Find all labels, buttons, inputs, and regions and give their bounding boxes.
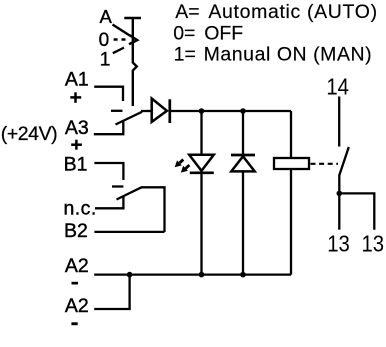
svg-text:A3: A3 (65, 117, 89, 139)
diode D1 cathode bar (168, 99, 171, 123)
suppressor diode D2 triangle (pointing up) (231, 156, 254, 171)
svg-text:B1: B1 (64, 154, 88, 176)
fixed contact tick of B1 contact (112, 185, 123, 187)
wire top rail corner down to relay coil K1 (290, 111, 292, 158)
relay coil K1 (274, 158, 309, 169)
svg-text:1: 1 (100, 48, 111, 70)
svg-text:A2: A2 (65, 255, 89, 277)
svg-text:13: 13 (362, 230, 385, 256)
junction node A2 tie point (127, 272, 133, 278)
svg-text:A2: A2 (65, 295, 89, 317)
wire from pin 14 to contact (338, 97, 340, 147)
wire from B1 down to fixed contact (94, 163, 123, 180)
wire relay coil K1 to bottom rail (290, 169, 292, 275)
selector lever position 1 (tick) (113, 48, 124, 54)
svg-text:(+24V): (+24V) (1, 123, 57, 145)
wire branch to second pin 13 (339, 193, 374, 229)
plus sign under A1 (70, 92, 81, 103)
wire LED cathode to bottom rail (200, 173, 202, 275)
svg-text:1=: 1= (174, 44, 196, 66)
minus sign under lower A2 (71, 322, 77, 325)
LED emission arrow 2 (181, 165, 190, 173)
junction node at 13 branch (337, 191, 343, 197)
fixed contact tick of A1/A3 selector contact (111, 110, 123, 112)
wire from n.c. up to blade pivot (95, 197, 123, 209)
svg-text:B2: B2 (64, 220, 88, 242)
moving blade of A1/A3 selector contact (116, 112, 143, 125)
wire contact to pin 13 (338, 175, 340, 230)
svg-text:A: A (100, 6, 113, 27)
minus sign under upper A2 (72, 282, 79, 285)
LED indicator triangle (189, 155, 214, 171)
legend line 1 = Manual ON (MAN) (174, 44, 373, 66)
plus sign under A3 (71, 140, 82, 150)
svg-text:14: 14 (326, 74, 349, 100)
svg-text:A=: A= (175, 1, 199, 23)
svg-text:13: 13 (327, 230, 350, 256)
wire D2 anode to bottom rail (242, 171, 244, 274)
legend line 0 = OFF (173, 22, 243, 44)
junction node bottom rail / LED branch (199, 272, 205, 278)
svg-text:Automatic (AUTO): Automatic (AUTO) (208, 1, 377, 23)
svg-text:0=: 0= (173, 22, 195, 44)
junction node bottom rail / diode branch (240, 272, 246, 278)
svg-text:Manual ON (MAN): Manual ON (MAN) (204, 44, 373, 66)
wire top rail to LED anode (200, 111, 202, 155)
svg-text:A1: A1 (65, 69, 89, 91)
svg-text:n.c.: n.c. (64, 197, 97, 219)
wire lower A2 up to junction (94, 275, 129, 309)
junction node top rail / LED branch (199, 108, 205, 114)
wire from blade end around to B2 (141, 187, 165, 232)
selector switch S1 actuator T-bar (124, 17, 141, 20)
top supply rail wire (171, 110, 291, 112)
LED cathode bar (190, 171, 214, 174)
relay output contact blade (NO) (339, 147, 349, 175)
wire B2 (94, 231, 164, 233)
moving blade of B1 contact (117, 187, 142, 199)
selector lever position A (solid line with arrowhead) (113, 25, 138, 45)
svg-text:OFF: OFF (204, 22, 243, 44)
suppressor diode D2 cathode bar (231, 154, 255, 157)
bottom rail wire from A2 to coil (94, 273, 291, 275)
wire from A1 to fixed contact (94, 87, 123, 101)
selector lever position 0 (dashed) (114, 38, 127, 40)
wire from A3 to blade pivot (94, 122, 124, 135)
selector switch S1 actuator shaft with detent kink (133, 18, 137, 106)
LED emission arrow 1 (175, 160, 184, 168)
junction node top rail / diode branch (240, 108, 246, 114)
dashed mechanical link coil to contact (311, 163, 339, 165)
diode D1 triangle (152, 99, 167, 122)
legend line A = Automatic (AUTO) (175, 1, 378, 23)
wire top rail to suppressor diode D2 cathode (242, 111, 244, 155)
wire from blade to diode D1 anode (141, 110, 152, 112)
